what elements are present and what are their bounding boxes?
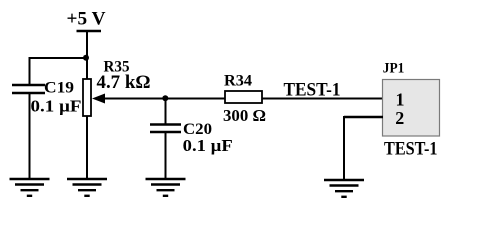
power +5V	[67, 9, 106, 32]
wire R35 bottom to ground	[86, 116, 88, 179]
svg-text:2: 2	[395, 108, 404, 128]
capacitor C20	[150, 125, 181, 133]
svg-text:+5 V: +5 V	[67, 9, 106, 30]
capacitor C19	[12, 85, 45, 93]
svg-text:0.1 µF: 0.1 µF	[31, 97, 82, 116]
ground (below C20)	[146, 179, 186, 196]
ground (below R35)	[67, 179, 107, 196]
svg-text:R34: R34	[224, 73, 252, 90]
svg-text:TEST-1: TEST-1	[384, 140, 438, 160]
svg-text:1: 1	[396, 90, 405, 110]
wire wiper to R34 left lead	[104, 98, 225, 100]
wire C19 bottom plate to ground	[29, 93, 31, 179]
wire junction to C19 branch	[29, 57, 87, 59]
node junction on +5V rail	[83, 55, 89, 61]
svg-text:TEST-1: TEST-1	[284, 80, 341, 101]
wire R34 right lead to JP1 pin 1	[262, 98, 383, 100]
wire JP1 pin 2 to ground drop	[344, 116, 383, 180]
resistor R35 (trimmer body)	[83, 79, 91, 116]
wire C20 bottom plate to ground	[165, 132, 167, 179]
svg-text:0.1 µF: 0.1 µF	[183, 136, 233, 155]
svg-text:C19: C19	[44, 80, 74, 97]
wire down to C19 top plate	[29, 57, 31, 85]
wire junction down to C20 top plate	[165, 99, 167, 125]
svg-text:JP1: JP1	[383, 61, 405, 77]
resistor R34 (body)	[225, 91, 262, 103]
ground (JP1 pin 2)	[324, 180, 364, 197]
ground (below C19)	[10, 179, 50, 196]
svg-text:4.7 kΩ: 4.7 kΩ	[97, 72, 151, 93]
svg-text:300 Ω: 300 Ω	[223, 106, 266, 125]
connector JP1 (body)	[383, 80, 440, 137]
wiper arrow into R35	[92, 94, 105, 104]
wire +5V rail to R35 top	[86, 31, 88, 80]
node junction at C20 tap	[162, 95, 168, 101]
